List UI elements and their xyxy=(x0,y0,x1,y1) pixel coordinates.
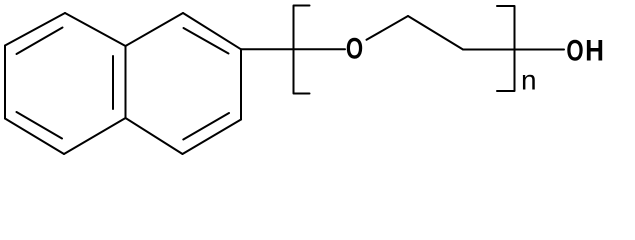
svg-text:O: O xyxy=(566,33,583,67)
right repeat bracket xyxy=(497,6,515,91)
bond H-I naphthalene right ring right edge xyxy=(240,49,242,119)
atom label O xyxy=(346,31,363,65)
double bond inner line, left ring bottom-left xyxy=(17,112,63,139)
bond B-C naphthalene left ring left edge xyxy=(4,46,6,119)
svg-text:O: O xyxy=(346,31,363,65)
subscript n repeat count xyxy=(521,64,537,95)
double bond inner line, right ring top-right xyxy=(184,28,229,54)
atom label OH hydroxyl xyxy=(566,33,604,67)
bond E-F naphthalene fusion bond xyxy=(125,46,127,118)
bond D-E naphthalene left ring bottom-right edge xyxy=(64,118,126,154)
bond I-J naphthalene right ring bottom-right edge xyxy=(183,120,242,155)
left repeat bracket xyxy=(294,6,310,94)
bond O to CH2 peak xyxy=(367,16,409,40)
double bond inner line, right ring bottom-right xyxy=(183,113,229,140)
bond F-G naphthalene right ring top-left edge xyxy=(126,13,184,46)
bond F-A naphthalene left ring top-right edge xyxy=(65,13,126,46)
bond G-H naphthalene right ring top-right edge xyxy=(183,13,241,49)
double bond inner line, left ring top-left xyxy=(17,28,63,55)
bond J-E naphthalene right ring bottom-left edge xyxy=(126,118,183,154)
svg-text:n: n xyxy=(521,64,537,95)
svg-text:H: H xyxy=(585,34,604,67)
double bond inner line, fusion bond xyxy=(112,56,114,109)
bond CH2 to OH (crosses right bracket) xyxy=(463,49,564,51)
bond CH2 peak to CH2 valley xyxy=(408,16,463,50)
bond ring to O (crosses left bracket) xyxy=(241,48,345,50)
bond A-B naphthalene left ring top-left edge xyxy=(5,13,65,46)
bond C-D naphthalene left ring bottom-left edge xyxy=(5,119,64,155)
